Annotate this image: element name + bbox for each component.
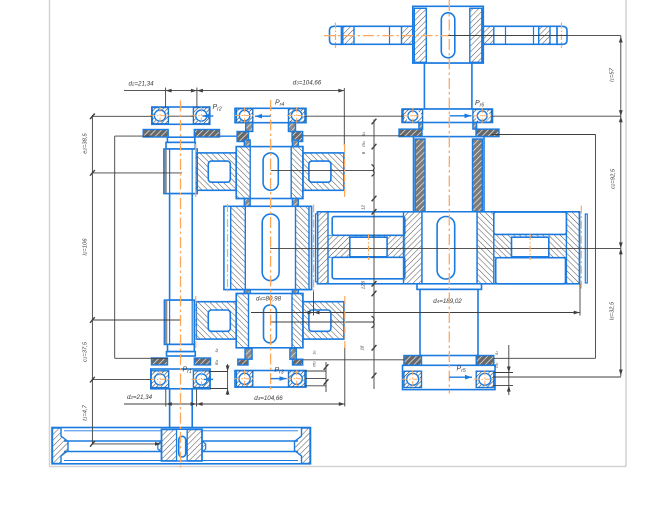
svg-text:d3=104,66: d3=104,66 bbox=[293, 80, 322, 87]
shaft 3 big gear left web window bbox=[350, 237, 387, 257]
shaft 3 top bearing left block bbox=[403, 109, 423, 122]
shaft 3 bottom cap right bbox=[476, 356, 494, 366]
drawing frame right border bbox=[625, 0, 627, 467]
drawing frame left border bbox=[49, 0, 51, 467]
shaft 2 bottom bearing right block bbox=[289, 371, 305, 387]
pitch line common mesh bbox=[313, 205, 315, 292]
shaft 3 top bearing housing bbox=[402, 109, 493, 123]
shaft 2 lower pinion right rim bbox=[303, 302, 344, 339]
gear width witness line bbox=[373, 120, 375, 390]
shaft 2 big gear body bbox=[224, 206, 312, 289]
input shaft right key hatch bbox=[539, 26, 550, 44]
right chain branch top (input shaft axis) bbox=[448, 35, 621, 37]
case line between shaft1 and shaft2 bbox=[220, 135, 238, 137]
svg-text:e2=38,5: e2=38,5 bbox=[83, 133, 89, 154]
wheel hub left hatch bbox=[162, 429, 177, 461]
input shaft right arm hatch at block bbox=[482, 26, 494, 44]
bevel block keyway bbox=[441, 13, 455, 58]
input shaft right arm tip bbox=[557, 26, 567, 44]
svg-text:12,5: 12,5 bbox=[361, 280, 366, 289]
top witness shaft1 right bbox=[196, 88, 198, 108]
shaft 3 top step strips bbox=[419, 123, 423, 130]
left chain branch to bearing 1 top bbox=[92, 115, 152, 117]
drawing frame bottom border bbox=[50, 466, 627, 468]
shaft 2 top bearing left ball bbox=[239, 109, 251, 121]
shaft 3 top bearing right ball bbox=[477, 110, 488, 121]
force arrow Pr3 bbox=[271, 378, 287, 380]
bottom witness shaft1 left bbox=[165, 390, 167, 407]
shaft 3 big gear left rim hatch bbox=[318, 212, 329, 284]
shaft 2 top step strips bbox=[246, 123, 253, 132]
web mark right bbox=[529, 234, 531, 260]
left chain tick y172.9 bbox=[90, 170, 95, 176]
centerline shaft 3 bbox=[448, 0, 450, 394]
small dim shaft3 bottom bbox=[508, 345, 510, 395]
shaft 3 big gear left web hatch bbox=[328, 235, 405, 257]
shaft 2 big gear left wall bbox=[231, 206, 246, 289]
shaft 2 lower pinion left rim bbox=[196, 302, 236, 339]
shaft 1 upper gear bbox=[164, 149, 197, 194]
bevel block body bbox=[413, 6, 484, 63]
shaft 1 top bearing right block bbox=[193, 108, 209, 124]
shaft 3 bottom bearing housing bbox=[403, 365, 496, 389]
shaft 1 lower ring b bbox=[167, 352, 196, 356]
wheel hub right flange bump bbox=[202, 441, 206, 452]
d4 arrows bbox=[308, 311, 314, 315]
shaft 3 big gear hub left wall bbox=[404, 212, 423, 284]
shaft 1 bottom bearing right ball bbox=[195, 373, 208, 386]
bottom witness lower gear pitch bbox=[344, 346, 346, 407]
wheel hub right hatch bbox=[187, 429, 202, 461]
shaft 3 neck bbox=[424, 63, 472, 109]
shaft 3 big gear hub bbox=[422, 212, 477, 284]
left bracket top branch bbox=[115, 135, 152, 137]
left chain tick y379.6 bbox=[90, 377, 95, 383]
left chain tick y116.3 bbox=[90, 114, 95, 120]
input shaft left arm hatch at block bbox=[402, 26, 413, 44]
right bracket vertical bbox=[595, 135, 597, 359]
svg-text:12: 12 bbox=[361, 205, 366, 210]
shaft 2 upper pinion left recess bbox=[208, 161, 230, 182]
shaft 2 upper pinion right rim bbox=[303, 153, 344, 190]
shaft 2 top bearing right block bbox=[289, 109, 305, 123]
right chain vertical bbox=[620, 36, 622, 377]
shaft 3 big gear right rim hatch bbox=[566, 212, 579, 284]
d4 witness big gear pitch right bbox=[579, 284, 581, 316]
right chain arrows bbox=[619, 37, 623, 43]
shaft 3 top bearing left ball bbox=[407, 110, 418, 121]
shaft 2 top bearing right ball bbox=[291, 109, 303, 121]
shaft 2 upper pinion hub left wall bbox=[236, 147, 250, 199]
shaft 3 top cap left bbox=[399, 129, 422, 137]
shaft 3 bottom bearing right ball bbox=[478, 373, 492, 387]
shaft 1 top bearing housing bbox=[152, 107, 210, 124]
shaft 2 upper pinion hub right wall bbox=[291, 147, 303, 199]
svg-text:m3: m3 bbox=[312, 361, 317, 367]
svg-text:d4=80,98: d4=80,98 bbox=[256, 296, 282, 303]
shaft 2 bottom cap right bbox=[293, 359, 303, 365]
shaft 3 top bearing right block bbox=[473, 109, 492, 122]
left bracket vertical bbox=[114, 136, 116, 358]
left chain branch to shaft 1 lower gear bbox=[92, 319, 180, 321]
shaft 1 bearing mid line bbox=[169, 115, 194, 117]
svg-text:d3=104,66: d3=104,66 bbox=[254, 395, 283, 402]
svg-text:s2: s2 bbox=[214, 348, 219, 352]
shaft 1 bottom bearing left block bbox=[151, 371, 169, 388]
wheel hub left flange bump bbox=[158, 441, 162, 452]
force arrow Pr2 bbox=[203, 115, 214, 117]
shaft 1 bottom bearing housing bbox=[151, 369, 210, 389]
shaft 1 lower gear bbox=[164, 300, 194, 344]
shaft 2 lower pinion hub bbox=[236, 294, 303, 348]
wheel inner line top bbox=[64, 440, 298, 442]
shaft 1 top bearing left ball bbox=[154, 109, 167, 122]
left dimension chain line bbox=[91, 115, 93, 444]
shaft 3 sleeve left wall bbox=[415, 139, 425, 212]
wheel inner line b2 bbox=[64, 460, 298, 462]
shaft 2 lower pinion hub right wall bbox=[292, 294, 303, 348]
shaft 1 bottom cap left bbox=[152, 358, 168, 365]
shaft 3 big gear right tip bbox=[585, 214, 587, 283]
left chain branch to wheel hub bbox=[92, 443, 159, 445]
shaft 3 big gear right web window bbox=[512, 237, 549, 257]
input shaft left arm step bbox=[389, 26, 391, 44]
shaft 1 lower end bbox=[170, 389, 193, 459]
shaft 2 upper pinion hub bbox=[236, 147, 303, 199]
shaft 2 top cap right bbox=[292, 132, 303, 142]
wheel hub bbox=[162, 429, 203, 461]
shaft 2 top bearing left block bbox=[236, 109, 252, 123]
shaft 1 lower gear tooth strip bbox=[165, 301, 167, 344]
shaft 1 seal ring b bbox=[166, 142, 195, 149]
input shaft right arm step bbox=[505, 26, 507, 44]
bevel block left hatch bbox=[414, 8, 426, 62]
bevel block right hatch bbox=[470, 8, 482, 62]
shaft 2 bottom bearing left block bbox=[236, 371, 252, 387]
right chain branch bearing level bbox=[305, 115, 404, 117]
big gear web leader d4 bbox=[270, 247, 621, 249]
input shaft left arm bbox=[341, 26, 413, 44]
centerline input arm bbox=[324, 35, 449, 37]
svg-text:18: 18 bbox=[360, 345, 365, 350]
shaft 3 collar below gear bbox=[417, 284, 482, 290]
shaft 3 sleeve outline bbox=[414, 137, 485, 212]
upper pinion web leader bbox=[271, 169, 373, 171]
shaft 2 lower pinion left recess bbox=[208, 310, 230, 331]
wheel hub keyway oval bbox=[179, 436, 186, 457]
svg-text:d2=21,34: d2=21,34 bbox=[128, 81, 154, 88]
svg-text:d4=189,02: d4=189,02 bbox=[433, 298, 462, 305]
shaft 1 bottom cap right bbox=[194, 358, 210, 365]
input shaft left key hatch bbox=[343, 26, 354, 44]
top witness gear pitch bbox=[343, 88, 345, 146]
wheel hub keyway slot bbox=[177, 429, 188, 461]
shaft 3 top cap right bbox=[476, 129, 499, 137]
wheel inner line t2 bbox=[64, 430, 298, 432]
svg-text:s4: s4 bbox=[361, 132, 366, 136]
bottom dimension line bbox=[124, 403, 345, 405]
shaft 2 bottom bearing left ball bbox=[238, 372, 251, 385]
shaft 2 spacer sleeve walls bbox=[245, 349, 252, 360]
pitch line big gear 2 left bbox=[227, 204, 229, 292]
shaft 2 top cap left bbox=[237, 132, 248, 142]
shaft 2 lower pinion hub left wall bbox=[236, 294, 248, 348]
force arrow Pr1 bbox=[204, 378, 213, 380]
left chain branch to bearing 1 bottom bbox=[92, 379, 150, 381]
shaft 2 spacer bits top bbox=[244, 140, 250, 147]
shaft 2 bottom bearing housing bbox=[235, 371, 306, 388]
pitch line lower mesh right bbox=[344, 296, 346, 348]
shaft 1 bottom bearing right block bbox=[193, 371, 210, 388]
shaft 3 bottom bearing left ball bbox=[406, 373, 420, 387]
left arm tip cross centerline bbox=[335, 23, 337, 49]
web mark left bbox=[368, 234, 370, 260]
lower pinion web leader bbox=[270, 321, 373, 323]
right arm tip cross centerline bbox=[561, 23, 563, 49]
shaft 3 lower shaft bbox=[420, 289, 478, 355]
centerline shaft 1 bbox=[180, 101, 182, 468]
small dim shaft1 bottom bbox=[227, 364, 229, 395]
shaft 1 seal ring a bbox=[167, 137, 194, 142]
bottom dim arrows bbox=[166, 402, 172, 406]
shaft 1 lower gear bore lines bbox=[169, 301, 171, 344]
shaft 1 middle shaft bbox=[170, 194, 193, 301]
shaft 2 upper pinion keyway bbox=[263, 153, 278, 190]
shaft 1 lower ring a bbox=[168, 344, 195, 351]
small dim shaft2 bottom bbox=[325, 362, 327, 392]
shaft 3 big gear right web hatch bbox=[494, 234, 567, 257]
right bracket bottom branch bbox=[494, 357, 596, 359]
shaft 2 lower pinion right recess bbox=[309, 310, 331, 331]
shaft 1 top bearing cap left bbox=[143, 130, 168, 138]
shaft 3 big gear keyway bbox=[437, 217, 455, 280]
pitch line upper mesh left bbox=[195, 144, 197, 198]
shaft 3 big gear right bottom recess bbox=[496, 258, 566, 284]
shaft 3 bottom cap left bbox=[404, 356, 422, 366]
shaft 1 top bearing right ball bbox=[195, 109, 208, 122]
centerline shaft 2 bbox=[270, 100, 272, 392]
shaft 1 bottom bearing left ball bbox=[154, 373, 167, 386]
bottom witness shaft1 right bbox=[196, 390, 198, 407]
shaft 3 bottom bearing left block bbox=[404, 371, 422, 387]
svg-text:m1: m1 bbox=[494, 362, 499, 368]
shaft 2 bottom bearing right ball bbox=[290, 372, 303, 385]
left chain tick y320 bbox=[90, 317, 95, 323]
case connect line bottom bbox=[303, 359, 404, 361]
top witness shaft1 left bbox=[165, 88, 167, 108]
svg-text:d2=21,34: d2=21,34 bbox=[127, 394, 153, 401]
force arrow Pr6 bbox=[450, 115, 472, 117]
shaft 3 bottom bearing right block bbox=[476, 371, 494, 387]
shaft 3 big gear left top recess bbox=[332, 217, 405, 236]
left chain tick y443.9 bbox=[90, 441, 95, 447]
shaft 2 spacer bits mid bbox=[244, 199, 250, 207]
top dimension line bbox=[124, 90, 344, 92]
force arrow Pr5 bbox=[449, 376, 472, 378]
wheel body bbox=[52, 428, 311, 464]
input shaft left arm tip bbox=[330, 26, 342, 44]
shaft 2 big gear right wall bbox=[296, 206, 310, 289]
shaft 2 upper pinion left rim bbox=[196, 153, 236, 190]
wheel inner line mid bbox=[64, 451, 298, 453]
shaft 2 big gear keyway bbox=[262, 214, 279, 281]
input shaft right arm bbox=[483, 26, 557, 44]
pitch line upper mesh right bbox=[344, 144, 346, 198]
wheel left cap bbox=[53, 428, 69, 463]
shaft 3 big gear left tip bbox=[316, 214, 318, 282]
force arrow Pr4 bbox=[255, 115, 271, 117]
svg-text:m4: m4 bbox=[361, 141, 366, 147]
d4 witness big gear pitch left bbox=[313, 290, 315, 316]
shaft 1 upper gear bore lines bbox=[169, 150, 171, 194]
shaft 3 big gear left bottom recess bbox=[332, 257, 405, 279]
svg-text:s3: s3 bbox=[312, 350, 317, 354]
shaft 2 bottom cap left bbox=[238, 359, 248, 365]
shaft 1 upper gear tooth strip bbox=[164, 150, 166, 193]
svg-text:l3=32,5: l3=32,5 bbox=[610, 301, 616, 320]
right bracket top branch bbox=[303, 135, 404, 137]
shaft 1 top bearing cap right bbox=[194, 130, 219, 138]
shaft 3 big gear body bbox=[318, 212, 580, 284]
shaft 2 lower pinion keyway bbox=[264, 305, 277, 343]
shaft 2 upper pinion right recess bbox=[309, 161, 331, 182]
svg-text:m2: m2 bbox=[214, 360, 219, 366]
left chain branch to shaft 1 gear bbox=[92, 172, 182, 174]
input shaft axis black segment bbox=[448, 35, 567, 37]
shaft 2 top bearing housing bbox=[235, 108, 306, 122]
svg-text:s1: s1 bbox=[494, 351, 499, 355]
wheel right cap bbox=[295, 428, 311, 463]
pitch line big gear 3 right bbox=[580, 206, 582, 290]
shaft 3 big gear right top recess bbox=[494, 212, 567, 234]
shaft 1 top bearing left block bbox=[152, 108, 168, 124]
d4 dimension line bbox=[251, 312, 580, 314]
shaft 3 sleeve right wall bbox=[473, 139, 483, 212]
left bracket bottom branch bbox=[115, 357, 168, 359]
shaft 3 big gear hub right wall bbox=[477, 212, 494, 284]
pitch line lower mesh left bbox=[195, 296, 197, 348]
top dim arrows d2 bbox=[166, 89, 172, 93]
